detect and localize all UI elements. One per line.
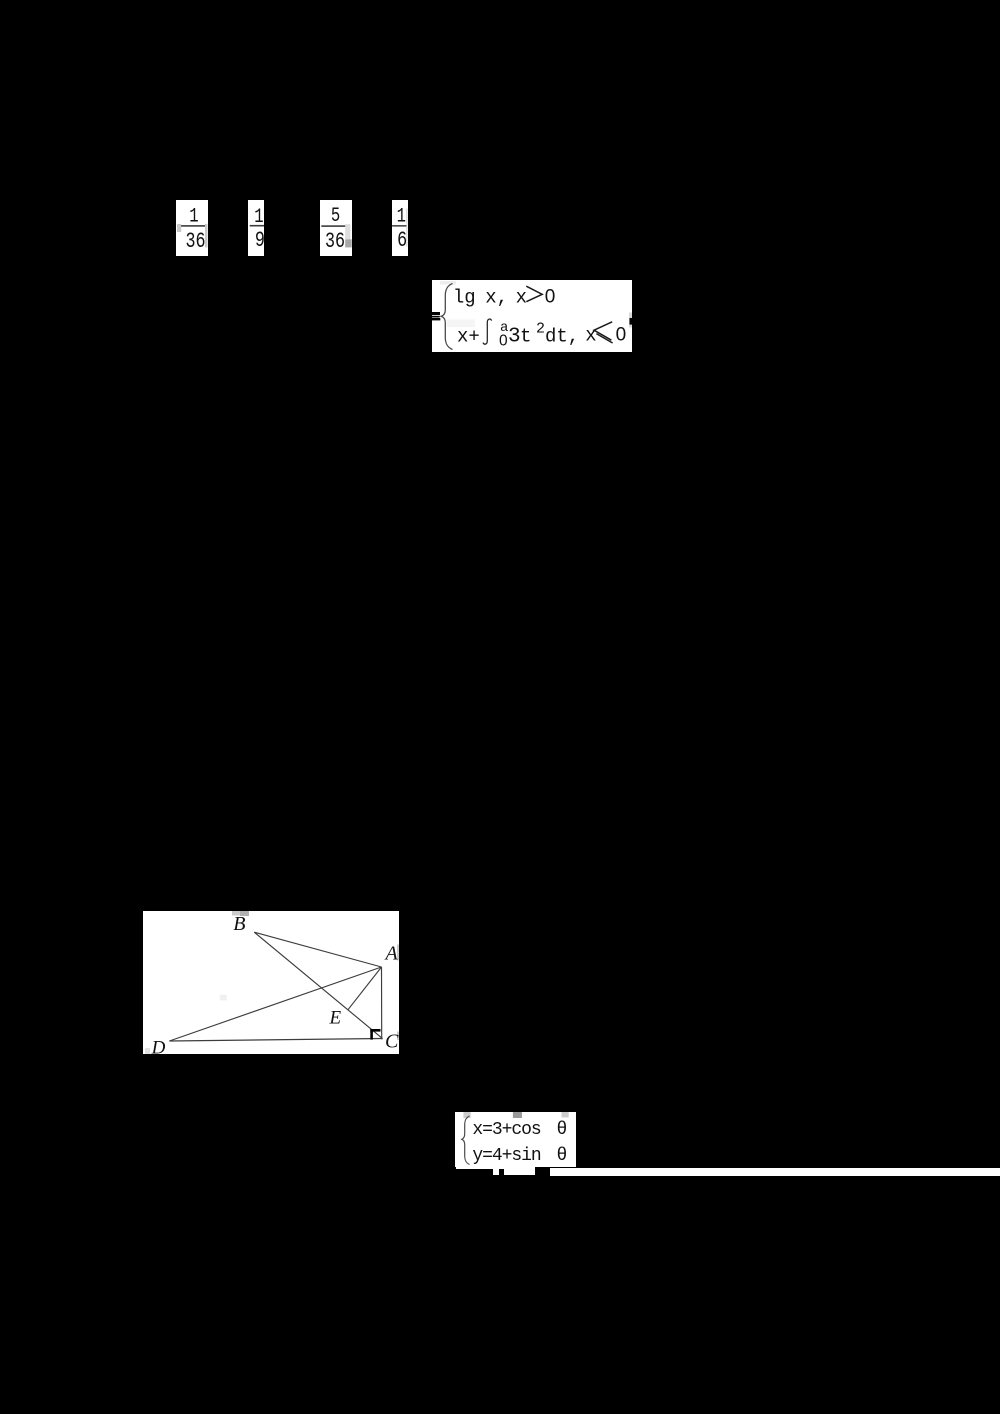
svg-text:1: 1 — [189, 206, 198, 228]
svg-text:36: 36 — [185, 229, 205, 254]
svg-text:36: 36 — [325, 229, 345, 254]
svg-text:θ: θ — [557, 1146, 568, 1166]
svg-text:t: t — [520, 325, 531, 347]
svg-text:D: D — [151, 1038, 166, 1054]
svg-text:0: 0 — [499, 332, 508, 349]
svg-text:E: E — [329, 1008, 342, 1029]
svg-text:x+: x+ — [457, 325, 480, 347]
svg-text:0: 0 — [545, 287, 556, 308]
svg-text:y=4+sin: y=4+sin — [472, 1146, 541, 1166]
svg-text:3: 3 — [508, 325, 521, 348]
svg-text:B: B — [233, 913, 245, 935]
svg-text:9: 9 — [255, 228, 264, 253]
svg-text:C: C — [385, 1030, 399, 1052]
svg-text:0: 0 — [616, 325, 627, 346]
svg-text:6: 6 — [397, 228, 407, 253]
svg-text:x,: x, — [485, 287, 508, 309]
svg-text:x=3+cos: x=3+cos — [472, 1120, 541, 1140]
svg-text:dt,: dt, — [545, 325, 579, 347]
svg-text:A: A — [384, 943, 399, 965]
svg-text:lg: lg — [453, 287, 476, 309]
svg-text:θ: θ — [557, 1120, 568, 1140]
svg-text:2: 2 — [536, 321, 545, 338]
svg-text:x: x — [516, 287, 527, 309]
svg-text:x: x — [585, 324, 596, 346]
svg-text:5: 5 — [331, 206, 340, 228]
svg-text:1: 1 — [397, 206, 406, 228]
